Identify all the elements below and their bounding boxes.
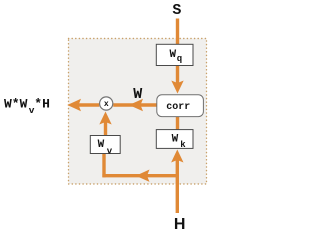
- wire corr to multiply circle: [113, 103, 157, 106]
- wire H up to Wk: [176, 160, 179, 213]
- wire Wv to multiply circle: [104, 121, 107, 136]
- output wire circle to left edge: [72, 103, 99, 106]
- svg-text:x: x: [104, 100, 109, 109]
- wire corr to Wk: [176, 117, 179, 131]
- svg-text:S: S: [172, 2, 181, 19]
- svg-text:W: W: [170, 49, 177, 61]
- wire Wv column vertical up to Wv box: [102, 153, 105, 178]
- svg-text:*H: *H: [34, 97, 50, 112]
- dashed container box: [69, 39, 207, 185]
- svg-text:k: k: [180, 140, 186, 150]
- svg-text:W*W: W*W: [4, 97, 28, 112]
- arrowhead into circle: [99, 112, 111, 125]
- svg-text:W: W: [133, 86, 142, 103]
- box Wk: [156, 130, 193, 149]
- svg-text:corr: corr: [166, 102, 190, 113]
- arrowhead mid branch pointing left: [136, 170, 150, 182]
- multiply node circle: [100, 97, 113, 110]
- output arrowhead: [67, 99, 81, 111]
- arrowhead mid wire pointing left: [129, 99, 143, 111]
- wire S to Wq: [176, 19, 179, 46]
- arrowhead into corr: [171, 81, 183, 94]
- arrowhead into Wk: [171, 150, 183, 163]
- svg-text:v: v: [107, 147, 113, 157]
- wire branch horizontal from H line to Wv column: [102, 174, 177, 177]
- box Wv: [90, 136, 120, 154]
- svg-text:q: q: [177, 54, 182, 64]
- box corr: [157, 95, 204, 117]
- wire Wq to corr: [176, 66, 179, 85]
- svg-text:H: H: [174, 216, 186, 232]
- svg-text:W: W: [172, 133, 179, 145]
- svg-text:W: W: [98, 139, 105, 151]
- box Wq: [156, 44, 193, 65]
